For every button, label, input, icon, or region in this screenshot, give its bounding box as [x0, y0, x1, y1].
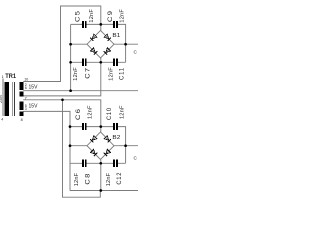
diode D2 top-right of B1 [104, 34, 111, 41]
node B1 top cap midpoint [99, 23, 102, 26]
capacitor C5 [75, 9, 96, 28]
svg-text:C10: C10 [106, 107, 113, 120]
wire pin10 outer route to B1 top [23, 6, 101, 82]
bridge B1 diamond [87, 30, 114, 58]
svg-text:12nF: 12nF [89, 9, 95, 23]
wire B2 right corner to edge [114, 145, 138, 147]
svg-text:C9: C9 [107, 10, 114, 22]
node B1 bottom cap midpoint [99, 61, 102, 64]
diode D5 top-left of B2 [90, 135, 97, 142]
svg-text:15V: 15V [29, 104, 38, 110]
svg-text:230V: 230V [0, 94, 3, 103]
wire B1 right corner to edge [114, 43, 138, 45]
wire B2 bottom cap row [70, 162, 126, 164]
diode D3 bottom-left of B1 [90, 48, 97, 55]
svg-text:12nF: 12nF [73, 67, 79, 81]
svg-text:C6: C6 [75, 108, 82, 120]
node line A tap [69, 89, 72, 92]
wire pin5 to B2 left vertical [23, 111, 70, 190]
node pin7 branch [61, 98, 64, 101]
capacitor C7 [73, 59, 92, 81]
diode D1 top-left of B1 [90, 34, 97, 41]
node B2 top cap left [69, 125, 72, 128]
svg-text:3: 3 [25, 107, 27, 111]
bridge B2 diamond [87, 132, 114, 160]
primary winding bar [4, 82, 9, 116]
svg-text:C12: C12 [116, 172, 123, 185]
svg-text:12nF: 12nF [74, 172, 80, 186]
svg-text:C8: C8 [85, 172, 92, 184]
wire B1 left vertical [70, 24, 72, 90]
wire B2 DC rail to edge [70, 190, 138, 192]
secondary winding bar 2a [20, 102, 24, 111]
node B2 bottom cap midpoint [99, 162, 102, 165]
capacitor C8 [74, 160, 91, 187]
svg-text:C5: C5 [75, 10, 82, 22]
wire pin7 branch outer bottom route to B2 bottom [63, 100, 101, 197]
diode D8 bottom-right of B2 [104, 149, 111, 156]
svg-text:12nF: 12nF [120, 105, 126, 119]
wire B1 bottom cap row [71, 61, 126, 63]
wire B2 left corner [70, 145, 87, 147]
capacitor C10 [106, 105, 126, 130]
svg-text:15V: 15V [29, 84, 38, 90]
svg-text:C11: C11 [118, 67, 125, 80]
node B1 left corner [69, 43, 72, 46]
wire pin7 to B2 top [23, 100, 101, 132]
capacitor C6 [75, 105, 93, 130]
svg-text:7: 7 [25, 96, 27, 100]
diode D4 bottom-right of B1 [104, 48, 111, 55]
node B1 bottom cap left [69, 61, 72, 64]
secondary winding bar 1b [20, 92, 24, 97]
svg-text:12nF: 12nF [109, 67, 115, 81]
svg-text:B2: B2 [112, 135, 120, 141]
node B2 right corner [124, 144, 127, 147]
svg-text:B1: B1 [112, 33, 120, 39]
svg-text:12nF: 12nF [87, 105, 93, 119]
svg-text:12nF: 12nF [106, 172, 112, 186]
core lines [13, 82, 15, 116]
capacitor C12 [106, 160, 123, 187]
wire pin2 to B1 bottom [23, 58, 101, 96]
svg-text:C7: C7 [85, 67, 92, 79]
transformer TR1 [0, 73, 38, 122]
node B2 output rail junction [99, 189, 102, 192]
svg-text:6: 6 [25, 86, 27, 90]
node B2 top cap midpoint [99, 125, 102, 128]
svg-text:1: 1 [2, 75, 4, 79]
wire B1 top cap row and right vertical [71, 24, 126, 62]
primary pin wire [2, 78, 4, 116]
wire B1 left corner [71, 43, 87, 45]
svg-text:12nF: 12nF [119, 9, 125, 23]
junction dots [61, 23, 127, 192]
svg-text:TR1: TR1 [5, 73, 16, 80]
node B2 left corner [69, 144, 72, 147]
svg-text:10: 10 [24, 78, 28, 82]
secondary winding bar 2b [20, 112, 24, 117]
wire line A (DC output rail) [23, 90, 138, 92]
svg-text:8: 8 [21, 118, 23, 122]
wire B2 top cap row and right vertical [70, 127, 126, 164]
diode D6 top-right of B2 [104, 135, 111, 142]
svg-text:4: 4 [1, 118, 3, 122]
capacitor C11 [109, 59, 126, 81]
diode D7 bottom-left of B2 [90, 149, 97, 156]
wire B2 bottom corner to 190-rail [100, 160, 102, 191]
node B1 right corner [124, 43, 127, 46]
secondary winding bar 1a [20, 82, 24, 90]
capacitor C9 [107, 9, 125, 28]
